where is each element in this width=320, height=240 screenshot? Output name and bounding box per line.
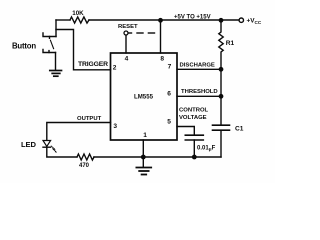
svg-text:7: 7 (168, 64, 172, 71)
svg-text:470: 470 (79, 163, 90, 169)
value 0.01uF (197, 145, 216, 152)
node supply-pin8 junction (158, 18, 163, 23)
svg-text:LM555: LM555 (134, 93, 154, 100)
svg-text:5: 5 (167, 119, 171, 126)
wire cap to ground rail (193, 140, 195, 157)
node supply-R1 junction (219, 18, 224, 23)
svg-text:Button: Button (12, 42, 36, 51)
node cap ground junction (192, 155, 197, 160)
wire pin8 from supply rail (160, 20, 162, 53)
resistor R1 (219, 20, 223, 69)
svg-text:TRIGGER: TRIGGER (78, 61, 108, 68)
wire top supply rail (56, 19, 239, 21)
resistor 10K (70, 17, 89, 23)
svg-text:OUTPUT: OUTPUT (77, 116, 102, 122)
wire trigger path to pin2 (56, 30, 111, 70)
svg-text:6: 6 (167, 91, 171, 98)
svg-text:CC: CC (255, 20, 262, 25)
resistor 470 (77, 154, 94, 160)
svg-text:F: F (212, 145, 216, 151)
wire R1 line to C1 (220, 69, 222, 124)
wire discharge pin7 (177, 68, 221, 70)
capacitor C1 (213, 125, 230, 130)
svg-text:THRESHOLD: THRESHOLD (181, 89, 218, 95)
pushbutton switch S1 (43, 33, 56, 53)
wire pin1 to ground rail (142, 140, 144, 157)
svg-text:1: 1 (143, 132, 147, 139)
wire dashed reset to pin8 line (128, 32, 154, 34)
svg-text:4: 4 (125, 55, 129, 62)
svg-text:LED: LED (21, 140, 37, 149)
node discharge junction (219, 67, 224, 72)
wire LED to bottom rail (47, 147, 77, 157)
capacitor 0.01uF (185, 135, 203, 140)
op-amp U1 LM555 box (111, 53, 178, 140)
svg-text:DISCHARGE: DISCHARGE (180, 63, 215, 69)
wire button to ground (55, 53, 57, 71)
svg-text:R1: R1 (226, 40, 235, 47)
wire bottom ground rail (94, 156, 221, 158)
wire output pin3 (47, 123, 111, 141)
svg-text:RESET: RESET (118, 24, 138, 30)
svg-text:0.01: 0.01 (197, 145, 209, 151)
wire reset to pin4 (125, 35, 127, 53)
LED D1 (43, 141, 57, 153)
label +Vcc (247, 18, 262, 26)
wire threshold pin6 (177, 95, 221, 97)
node threshold junction (219, 94, 224, 99)
svg-text:2: 2 (113, 65, 117, 72)
svg-text:8: 8 (160, 55, 164, 62)
wire C1 to bottom rail (220, 130, 222, 157)
svg-text:3: 3 (113, 123, 117, 130)
ground main (136, 157, 151, 175)
svg-text:CONTROL: CONTROL (179, 107, 209, 113)
svg-text:VOLTAGE: VOLTAGE (179, 115, 207, 121)
wire control voltage pin5 (177, 127, 194, 135)
terminal +Vcc (239, 18, 243, 22)
ground button (50, 71, 62, 77)
svg-text:C1: C1 (235, 125, 244, 132)
terminal RESET (124, 31, 128, 35)
svg-text:+5V TO +15V: +5V TO +15V (174, 15, 211, 21)
wire button drop from rail (55, 20, 57, 37)
svg-text:10K: 10K (72, 10, 84, 17)
node pin1 ground junction (141, 155, 146, 160)
